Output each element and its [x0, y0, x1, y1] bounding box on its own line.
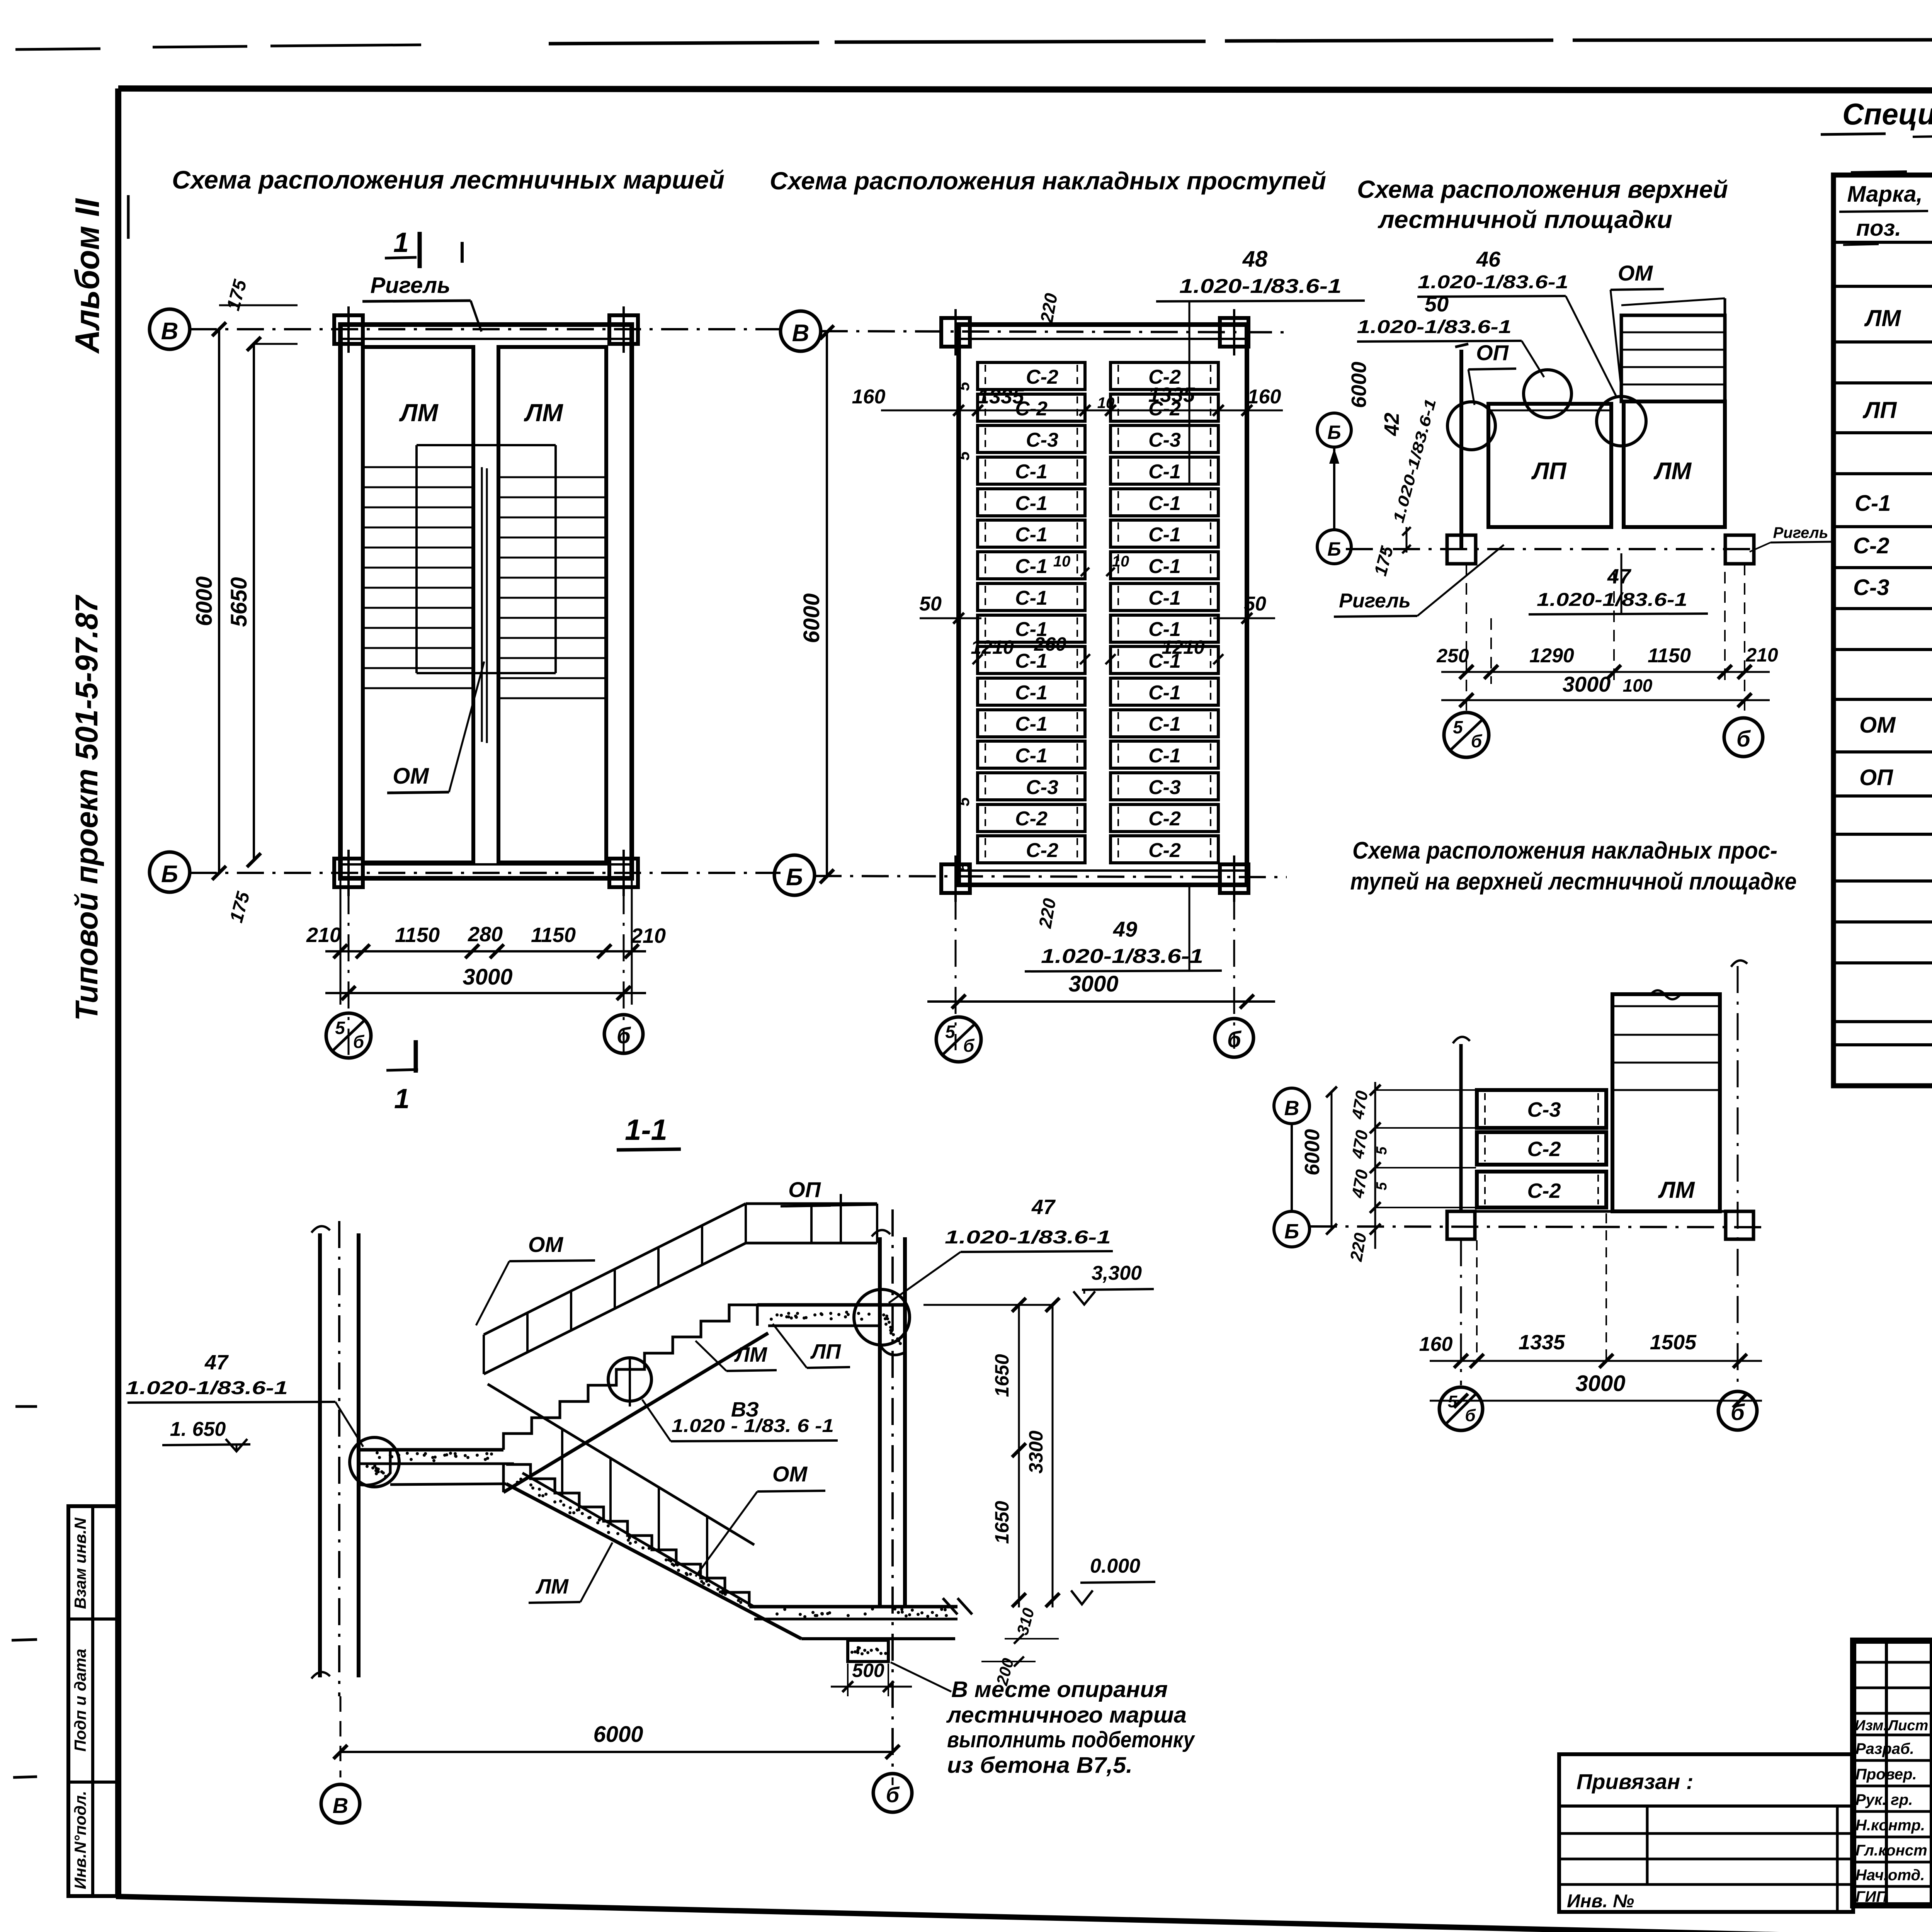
svg-text:1.020-1/83.6-1: 1.020-1/83.6-1	[1357, 317, 1512, 337]
drawing A left flight LM	[363, 347, 473, 862]
drawing D axis bubble 5/b	[1439, 1387, 1483, 1430]
svg-text:лестничной площадки: лестничной площадки	[1378, 206, 1672, 233]
svg-text:ОМ: ОМ	[528, 1232, 564, 1257]
svg-text:1210: 1210	[971, 636, 1014, 658]
drawing A axis bubble b	[604, 1015, 643, 1053]
svg-text:1150: 1150	[395, 923, 440, 947]
svg-text:С-2: С-2	[1026, 839, 1058, 862]
svg-text:5: 5	[1453, 717, 1463, 737]
drawing D axis line b vertical	[1737, 966, 1739, 1389]
svg-text:250: 250	[1436, 645, 1469, 667]
drawing D axis bubble V	[1274, 1088, 1310, 1124]
svg-text:С-1: С-1	[1855, 491, 1891, 516]
title block outer	[1853, 1641, 1932, 1905]
svg-text:Гл.конст: Гл.конст	[1855, 1842, 1927, 1859]
drawing C flight region LM	[1624, 401, 1725, 527]
left margin stamp block	[68, 1506, 118, 1896]
section ground floor slab	[749, 1605, 957, 1609]
drawing D plate C-3	[1477, 1090, 1606, 1128]
svg-text:б: б	[1227, 1027, 1242, 1052]
drawing D bottom dim line 2	[1430, 1400, 1762, 1402]
svg-text:42: 42	[1380, 413, 1403, 436]
svg-text:1150: 1150	[1648, 645, 1691, 667]
sheet frame left	[115, 88, 121, 1897]
drawing A bottom dim line 1	[325, 950, 646, 952]
section right landing bearing detail	[880, 1305, 905, 1355]
drawing B dim 50 row	[920, 617, 981, 619]
sheet frame top	[118, 88, 1932, 91]
drawing D vertical dim chain	[1374, 1082, 1376, 1249]
svg-text:С-1: С-1	[1015, 492, 1048, 515]
drawing C dim line 1	[1441, 671, 1770, 673]
drawing C landing LP	[1488, 404, 1611, 527]
svg-text:50: 50	[1244, 593, 1266, 615]
drawing A dim 6000 left	[218, 329, 220, 873]
svg-text:210: 210	[1745, 644, 1778, 666]
svg-text:С-3: С-3	[1026, 776, 1058, 799]
svg-text:ОМ: ОМ	[393, 764, 429, 789]
svg-text:Провер.: Провер.	[1855, 1766, 1917, 1783]
section dim 500	[831, 1686, 912, 1688]
svg-text:1.020-1/83.6-1: 1.020-1/83.6-1	[945, 1227, 1111, 1248]
drawing A bottom dim line 2	[325, 992, 646, 994]
svg-text:Ригель: Ригель	[370, 273, 450, 298]
svg-text:5: 5	[1448, 1392, 1458, 1411]
drawing C axis bubble 5/b	[1444, 713, 1489, 757]
svg-text:0.000: 0.000	[1090, 1555, 1140, 1577]
svg-text:5: 5	[954, 451, 973, 461]
svg-text:б: б	[963, 1036, 975, 1056]
section lower flight steps	[506, 1464, 749, 1607]
svg-text:б: б	[1465, 1406, 1476, 1425]
left margin tick marks	[15, 1405, 37, 1408]
svg-text:1210: 1210	[1162, 636, 1204, 658]
sheet frame bottom	[116, 1896, 1932, 1932]
svg-text:3000: 3000	[1563, 672, 1611, 696]
svg-text:1.020 - 1/83. 6 -1: 1.020 - 1/83. 6 -1	[672, 1416, 834, 1436]
svg-text:ГИП: ГИП	[1855, 1888, 1888, 1905]
section upper railing OM band	[484, 1204, 746, 1335]
svg-text:Рук. гр.: Рук. гр.	[1855, 1791, 1913, 1808]
section dim chain 1650	[1018, 1305, 1020, 1607]
svg-text:ЛМ: ЛМ	[1864, 305, 1901, 331]
svg-text:1.020-1/83.6-1: 1.020-1/83.6-1	[1418, 272, 1568, 293]
drawing D flight LM	[1612, 994, 1720, 1211]
drawing B axis circle B	[774, 855, 815, 895]
svg-text:Схема расположения накладных п: Схема расположения накладных прос-	[1352, 837, 1777, 864]
svg-text:Взам инв.N: Взам инв.N	[71, 1517, 89, 1609]
drawing C leader 46	[1566, 296, 1616, 396]
drawing D axis bubble B	[1274, 1211, 1310, 1247]
svg-text:б: б	[1731, 1400, 1745, 1425]
spec table title dashes	[1821, 134, 1886, 134]
svg-text:160: 160	[1419, 1333, 1453, 1355]
svg-text:5: 5	[954, 863, 973, 872]
svg-text:1.020-1/83.6-1: 1.020-1/83.6-1	[1179, 275, 1342, 298]
drawing B beam lines	[959, 338, 1247, 340]
svg-text:С-2: С-2	[1527, 1179, 1561, 1202]
drawing B dim row 1335	[881, 410, 1283, 412]
svg-text:3,300: 3,300	[1092, 1262, 1142, 1284]
svg-text:В: В	[792, 320, 810, 347]
svg-text:160: 160	[1248, 386, 1281, 408]
section lower flight soffit	[390, 1484, 506, 1485]
drawing B axis circle V	[781, 311, 821, 351]
svg-text:1.020-1/83.6-1: 1.020-1/83.6-1	[1041, 945, 1203, 968]
drawing A dim 5650 left	[253, 344, 255, 860]
svg-text:выполнить подбетонку: выполнить подбетонку	[947, 1727, 1195, 1752]
drawing B axis bubble 5/b	[936, 1017, 981, 1062]
section dim 200	[981, 1661, 1036, 1662]
section detail circle mid flight	[608, 1358, 651, 1401]
svg-text:10: 10	[1053, 553, 1071, 570]
svg-text:лестничного марша: лестничного марша	[946, 1702, 1187, 1728]
svg-text:210: 210	[631, 924, 666, 947]
svg-text:Схема расположения накладных п: Схема расположения накладных проступей	[770, 167, 1326, 195]
svg-text:ЛМ: ЛМ	[734, 1343, 767, 1366]
section note leader	[891, 1662, 951, 1692]
drawing C axis bubble b	[1724, 718, 1763, 757]
drawing C column squares	[1447, 535, 1476, 564]
svg-text:ЛМ: ЛМ	[535, 1575, 569, 1598]
svg-text:Подп и дата: Подп и дата	[71, 1649, 89, 1752]
drawing A central railing line	[481, 467, 483, 742]
drawing D wall axis line 5/b	[1459, 1044, 1463, 1211]
svg-text:210: 210	[306, 923, 341, 947]
svg-text:1335: 1335	[978, 385, 1024, 408]
svg-text:3000: 3000	[1068, 971, 1118, 997]
svg-text:ОМ: ОМ	[1859, 713, 1896, 738]
svg-text:ОМ: ОМ	[1618, 261, 1653, 285]
drawing B column squares	[941, 318, 970, 347]
drawing D axis line B horizontal	[1310, 1226, 1770, 1227]
drawing D dim 6000	[1331, 1092, 1333, 1229]
svg-text:С-3: С-3	[1148, 429, 1181, 451]
svg-text:С-1: С-1	[1148, 587, 1181, 609]
svg-text:С-1: С-1	[1148, 682, 1181, 704]
svg-text:С-1: С-1	[1015, 524, 1048, 546]
svg-text:С-3: С-3	[1853, 575, 1889, 600]
svg-text:5: 5	[945, 1022, 956, 1042]
svg-text:10: 10	[1097, 395, 1115, 412]
drawing B axis line B	[815, 876, 1287, 877]
svg-text:С-2: С-2	[1015, 808, 1048, 830]
section dim chain 3300	[1052, 1305, 1054, 1607]
drawing B plan outer walls	[959, 325, 1247, 885]
svg-text:С-1: С-1	[1148, 461, 1181, 483]
svg-text:5: 5	[954, 797, 973, 806]
drawing D extension dashed verticals	[1476, 1240, 1478, 1361]
drawing A axis circle B	[150, 852, 190, 892]
drawing D column squares	[1447, 1211, 1475, 1239]
drawing C flight treads upper	[1621, 315, 1725, 401]
svg-text:5: 5	[1374, 1146, 1390, 1155]
svg-text:б: б	[1736, 726, 1751, 752]
svg-text:49: 49	[1113, 917, 1137, 941]
svg-text:Инв.N°подл.: Инв.N°подл.	[71, 1791, 89, 1889]
section upper flight steps	[503, 1305, 757, 1450]
svg-text:1150: 1150	[531, 923, 576, 947]
svg-text:1-1: 1-1	[625, 1114, 667, 1146]
privyazan box	[1559, 1754, 1853, 1912]
svg-text:С-3: С-3	[1527, 1098, 1561, 1121]
svg-text:Б: Б	[1327, 422, 1341, 443]
drawing B tread plates	[978, 362, 1085, 389]
drawing D bottom dim line 1	[1430, 1360, 1762, 1362]
svg-text:10: 10	[1112, 553, 1129, 570]
section right landing slab	[757, 1303, 905, 1307]
drawing A treads left flight	[363, 466, 473, 468]
svg-text:50: 50	[1425, 292, 1449, 316]
svg-text:С-1: С-1	[1148, 555, 1181, 578]
svg-text:С-1: С-1	[1148, 524, 1181, 546]
drawing A upper landing boundary	[417, 444, 556, 446]
svg-text:Инв. №: Инв. №	[1567, 1891, 1634, 1912]
svg-text:С-2: С-2	[1853, 533, 1889, 558]
svg-text:поз.: поз.	[1856, 216, 1901, 241]
svg-text:б: б	[353, 1032, 365, 1052]
svg-text:С-1: С-1	[1015, 461, 1048, 483]
title block left grid horizontals	[1853, 1661, 1932, 1664]
svg-text:Лист: Лист	[1887, 1718, 1928, 1734]
svg-text:С-1: С-1	[1148, 713, 1181, 735]
section dim 310	[1005, 1638, 1059, 1639]
spec table outer frame	[1833, 175, 1932, 1086]
section left column	[318, 1233, 322, 1677]
drawing B bottom dim 3000	[927, 1000, 1275, 1003]
svg-text:С-1: С-1	[1015, 745, 1048, 767]
svg-text:Б: Б	[1284, 1220, 1299, 1243]
svg-text:ОП: ОП	[1859, 765, 1893, 790]
svg-text:160: 160	[852, 386, 886, 408]
svg-text:б: б	[617, 1023, 631, 1048]
section left landing slab	[359, 1448, 503, 1452]
spec table row lines	[1833, 241, 1932, 244]
drawing C extension lines	[1466, 564, 1467, 715]
svg-text:Привязан :: Привязан :	[1577, 1769, 1694, 1794]
drawing A lower landing boundary	[417, 672, 556, 674]
svg-text:1505: 1505	[1650, 1331, 1697, 1354]
svg-text:Н.контр.: Н.контр.	[1855, 1817, 1925, 1834]
svg-text:5: 5	[335, 1018, 345, 1038]
svg-text:1: 1	[393, 227, 409, 258]
svg-text:1650: 1650	[991, 1501, 1013, 1544]
drawing A axis bubble 5/b	[326, 1013, 371, 1058]
drawing D plate C-2 second	[1477, 1172, 1606, 1207]
drawing A rigel beam lines	[340, 338, 632, 340]
svg-text:С-1: С-1	[1148, 745, 1181, 767]
svg-text:С-2: С-2	[1148, 808, 1181, 830]
svg-text:3000: 3000	[1575, 1371, 1625, 1396]
svg-text:ОП: ОП	[788, 1177, 821, 1202]
section right column	[878, 1237, 882, 1606]
svg-text:С-1: С-1	[1015, 587, 1048, 609]
svg-text:тупей на верхней лестничной пл: тупей на верхней лестничной площадке	[1350, 868, 1797, 895]
svg-text:Спецификация к схемам распол: Спецификация к схемам расположения сборн…	[1842, 97, 1932, 131]
drawing D plate C-2 first	[1477, 1132, 1606, 1165]
svg-text:5650: 5650	[226, 577, 252, 627]
svg-text:1: 1	[394, 1083, 410, 1114]
drawing B axis line V	[821, 331, 1287, 332]
svg-text:ЛМ: ЛМ	[1653, 458, 1692, 485]
section dim 6000	[340, 1751, 893, 1753]
svg-text:Ригель: Ригель	[1773, 524, 1828, 541]
svg-text:48: 48	[1242, 247, 1268, 272]
svg-text:Схема расположения лестничных: Схема расположения лестничных маршей	[172, 165, 724, 194]
svg-text:Марка,: Марка,	[1847, 182, 1922, 207]
drawing A dim 175 top	[254, 343, 298, 345]
svg-text:50: 50	[919, 593, 942, 615]
section axis bubble V	[321, 1784, 360, 1823]
drawing A axis circle V	[150, 309, 190, 349]
drawing C dim line 2	[1441, 699, 1770, 701]
svg-text:С-3: С-3	[1148, 776, 1181, 799]
svg-text:из бетона В7,5.: из бетона В7,5.	[947, 1753, 1133, 1778]
svg-text:100: 100	[1623, 675, 1653, 696]
svg-text:3000: 3000	[463, 964, 512, 990]
svg-text:1335: 1335	[1519, 1331, 1565, 1354]
drawing D beam line	[1461, 1210, 1738, 1213]
drawing A right flight LM	[498, 347, 606, 862]
section left landing bearing block	[359, 1450, 390, 1485]
svg-text:Б: Б	[786, 864, 803, 891]
drawing C wall line left	[1459, 350, 1463, 549]
svg-text:Схема расположения верхней: Схема расположения верхней	[1357, 175, 1728, 203]
svg-text:С-3: С-3	[1026, 429, 1058, 451]
svg-text:6000: 6000	[1301, 1129, 1324, 1175]
svg-text:С-2: С-2	[1148, 839, 1181, 862]
drawing A section mark 1 bottom	[414, 1040, 418, 1073]
section lower railing OM band	[488, 1384, 754, 1545]
svg-text:С-2: С-2	[1527, 1138, 1561, 1161]
svg-text:1290: 1290	[1529, 645, 1574, 667]
drawing D axis connector	[1291, 1124, 1293, 1211]
svg-text:С-1: С-1	[1148, 492, 1181, 515]
svg-text:6000: 6000	[799, 593, 824, 643]
section detail circle left landing	[350, 1437, 399, 1487]
svg-text:Б: Б	[1327, 538, 1341, 560]
svg-text:260: 260	[1034, 633, 1066, 655]
drawing B extension dashdot bottom	[955, 893, 957, 1050]
svg-text:С-1: С-1	[1015, 555, 1048, 578]
svg-text:1335: 1335	[1148, 383, 1195, 406]
section ground slab bottom line	[801, 1637, 955, 1640]
svg-text:46: 46	[1476, 247, 1501, 271]
drawing D axis bubble b	[1718, 1391, 1757, 1430]
svg-text:6000: 6000	[192, 576, 217, 626]
svg-text:1.020-1/83.6-1: 1.020-1/83.6-1	[126, 1378, 288, 1398]
svg-text:Изм.: Изм.	[1855, 1718, 1888, 1734]
section podbetonka block	[848, 1640, 888, 1662]
svg-text:Разраб.: Разраб.	[1855, 1740, 1914, 1757]
drawing B dim 6000 left	[826, 332, 828, 876]
svg-text:3300: 3300	[1025, 1430, 1047, 1473]
svg-text:280: 280	[468, 923, 503, 946]
svg-text:Альбом II: Альбом II	[68, 198, 106, 354]
svg-text:б: б	[886, 1782, 900, 1807]
svg-text:ЛП: ЛП	[1862, 397, 1897, 423]
svg-text:ЛМ: ЛМ	[399, 399, 439, 427]
svg-text:6000: 6000	[593, 1722, 643, 1747]
drawing C axis line B	[1346, 548, 1757, 550]
drawing A treads right flight	[498, 476, 606, 478]
svg-text:47: 47	[204, 1351, 229, 1374]
drawing B leader 48	[1189, 301, 1190, 484]
drawing C leader 50	[1522, 341, 1544, 377]
svg-text:ОМ: ОМ	[772, 1462, 808, 1486]
svg-text:500: 500	[852, 1660, 884, 1681]
drawing A column squares	[334, 315, 363, 344]
svg-text:ОП: ОП	[1476, 340, 1509, 365]
svg-text:5: 5	[1374, 1182, 1390, 1190]
svg-text:1650: 1650	[991, 1354, 1013, 1397]
drawing A axis line B	[190, 872, 781, 874]
svg-text:В: В	[1284, 1097, 1299, 1120]
svg-text:6000: 6000	[1347, 362, 1371, 408]
svg-text:1.020-1/83.6-1: 1.020-1/83.6-1	[1537, 590, 1687, 610]
svg-text:ЛМ: ЛМ	[524, 399, 563, 427]
section detail circle right landing	[854, 1289, 910, 1345]
svg-text:С-1: С-1	[1015, 713, 1048, 735]
svg-text:Типовой проект 501-5-97.87: Типовой проект 501-5-97.87	[69, 595, 104, 1021]
svg-text:ЛП: ЛП	[810, 1340, 841, 1363]
drawing B axis bubble b	[1215, 1019, 1253, 1057]
drawing D extension lines left	[1376, 1089, 1476, 1091]
section upper flight soffit	[503, 1333, 768, 1492]
svg-text:В: В	[161, 318, 179, 345]
drawing C detail circles	[1524, 370, 1571, 418]
drawing A axis line V	[190, 328, 781, 330]
svg-text:ЛМ: ЛМ	[1658, 1177, 1695, 1203]
title block left grid verticals	[1885, 1641, 1888, 1905]
svg-text:47: 47	[1031, 1196, 1056, 1219]
svg-text:В месте опирания: В месте опирания	[951, 1677, 1168, 1702]
section landing railing OP band	[746, 1202, 877, 1205]
svg-text:Нач.отд.: Нач.отд.	[1855, 1867, 1925, 1884]
svg-text:5: 5	[954, 382, 973, 391]
drawing A plan outer walls	[340, 325, 632, 878]
svg-text:В: В	[333, 1793, 348, 1818]
svg-text:С-1: С-1	[1015, 682, 1048, 704]
svg-text:Б: Б	[161, 861, 178, 888]
drawing A extension dashdot bottom	[348, 887, 350, 1055]
svg-text:С-2: С-2	[1026, 366, 1058, 388]
svg-text:Ригель: Ригель	[1339, 590, 1411, 612]
svg-text:ЛП: ЛП	[1531, 458, 1567, 485]
svg-text:б: б	[1471, 731, 1483, 751]
svg-text:1. 650: 1. 650	[170, 1418, 226, 1440]
scan top broken line	[15, 49, 100, 49]
svg-text:47: 47	[1607, 565, 1632, 588]
section axis bubble b	[873, 1774, 912, 1812]
drawing C axis B bubbles left	[1317, 413, 1351, 447]
